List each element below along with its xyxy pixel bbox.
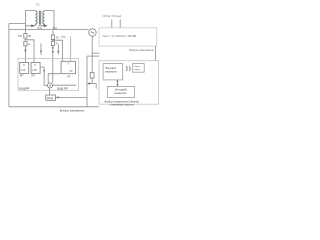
wire arrow left secondary — [25, 25, 31, 27]
node junction divider2 — [52, 40, 53, 41]
svg-text:Радио: Радио — [134, 66, 141, 68]
svg-text:П: П — [68, 62, 70, 65]
svg-text:2R: 2R — [28, 35, 31, 38]
wire stub into ground box upper — [92, 52, 99, 54]
wire sq2 to motor — [40, 67, 48, 85]
wire RAC right — [55, 96, 87, 98]
svg-text:Осн: Осн — [37, 26, 42, 30]
wire divider2 top — [52, 30, 54, 36]
svg-text:модем: модем — [134, 69, 141, 71]
wire Vad net down — [70, 36, 72, 61]
box RAC — [46, 95, 56, 100]
wire divider1 bottom with arrow — [24, 46, 26, 63]
wire top tap — [9, 23, 26, 25]
svg-text:T1: T1 — [36, 3, 40, 7]
transformer T1 left lead wire — [25, 11, 35, 34]
transformer T1 core — [39, 11, 40, 25]
resistor R4 — [51, 41, 54, 45]
telemetry interface box C — [108, 87, 135, 98]
svg-text:R: R — [28, 43, 30, 46]
svg-text:1 АР: 1 АР — [32, 69, 37, 72]
svg-text:компьютер: компьютер — [105, 71, 117, 73]
svg-text:ИП: ИП — [20, 75, 24, 78]
formula box — [99, 28, 157, 46]
wire box A to box C with arrows — [117, 80, 119, 87]
svg-text:П: П — [23, 64, 25, 67]
ground station box — [99, 61, 159, 104]
wire tap divider1 to sq2 — [25, 40, 34, 63]
motor M — [48, 83, 53, 88]
svg-text:R: R — [56, 43, 58, 46]
wire motor to RAC — [49, 88, 51, 95]
AC source G1 — [89, 29, 96, 36]
wire stub into ground box lower — [87, 55, 100, 57]
wire tick 1 — [111, 20, 113, 28]
wire R5 bottom — [91, 78, 93, 84]
wire motor right lead — [52, 84, 76, 86]
wire formula box to ground station box — [155, 46, 157, 61]
unit box BAC/RR (left) — [18, 59, 79, 91]
wire tick 2 — [119, 20, 121, 28]
svg-text:Vад: Vад — [61, 36, 66, 39]
svg-text:БЦВ РР: БЦВ РР — [57, 86, 67, 90]
svg-text:РР: РР — [70, 71, 74, 73]
svg-text:РАЦ: РАЦ — [47, 96, 54, 100]
wire arrow to riser — [90, 83, 96, 85]
wire stub right with arrow — [57, 44, 59, 54]
RF link squiggle — [126, 66, 130, 71]
node junction divider1 — [25, 39, 26, 40]
wire arrow right secondary — [38, 25, 44, 27]
transformer T1 right lead wire — [45, 11, 55, 30]
resistor R3 — [51, 35, 54, 39]
transformer T1 right winding — [43, 11, 45, 26]
svg-text:Бортовой: Бортовой — [106, 67, 117, 70]
svg-text:ИП: ИП — [31, 75, 35, 78]
svg-text:РР: РР — [67, 76, 71, 78]
onboard computer box A — [103, 64, 123, 80]
radio box B — [133, 64, 145, 73]
svg-text:Интерфейс: Интерфейс — [115, 89, 128, 92]
wire tap divider2 — [53, 40, 63, 61]
wire riser x87 — [86, 56, 88, 107]
resistor R5 on vertical — [90, 73, 94, 78]
wire bottom rail — [9, 106, 99, 108]
svg-text:Выброс напряжения: Выброс напряжения — [60, 109, 85, 113]
svg-text:П: П — [34, 64, 36, 67]
transformer T1 left winding — [35, 11, 37, 26]
wire divider2 bottom with arrows — [52, 46, 54, 83]
resistor R1 — [24, 33, 27, 38]
breaker sq2 — [31, 62, 40, 73]
svg-text:с наземным пультом: с наземным пультом — [110, 103, 134, 106]
svg-text:БАЦ/РР: БАЦ/РР — [19, 86, 29, 90]
svg-text:телеметрии: телеметрии — [114, 93, 127, 95]
wire G1 down — [91, 36, 93, 72]
breaker sq1 — [20, 62, 29, 73]
wire stub x96 — [95, 84, 97, 89]
wire left rail vertical — [8, 24, 10, 107]
svg-text:Выброс напряжения: Выброс напряжения — [129, 48, 154, 52]
wire box3 to motor — [48, 74, 61, 84]
svg-text:Vад: Vад — [18, 35, 23, 38]
relay box3 — [61, 61, 75, 73]
svg-text:I/O Bus: 5 В (ном): I/O Bus: 5 В (ном) — [103, 16, 122, 18]
resistor R2 — [24, 42, 27, 46]
svg-text:Vвых = 1,0 (R1/R2), 4В-28В: Vвых = 1,0 (R1/R2), 4В-28В — [102, 34, 136, 38]
svg-text:2R: 2R — [56, 36, 59, 39]
svg-text:1 АР: 1 АР — [21, 69, 26, 72]
wire stub left with arrow — [40, 43, 42, 55]
wire main bus — [9, 29, 89, 31]
